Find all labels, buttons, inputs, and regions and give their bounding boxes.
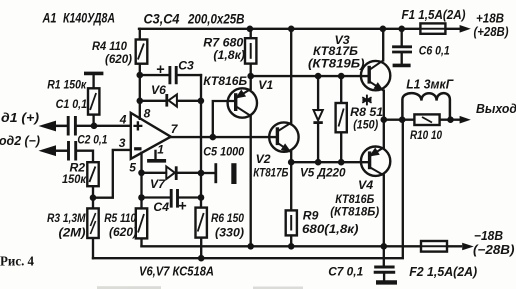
svg-text:С3: С3 xyxy=(178,59,194,73)
junction C4 right on output rail xyxy=(198,194,205,201)
svg-text:(−28В): (−28В) xyxy=(473,243,515,257)
wire drive line y162 V2 to V4 base xyxy=(291,161,369,163)
svg-text:(2М): (2М) xyxy=(59,226,86,240)
wire R9 leads xyxy=(290,162,292,246)
svg-text:5: 5 xyxy=(129,160,136,174)
wire R2 bottom to R3 top xyxy=(92,186,94,208)
wire bias line y76 R7 to V3 base xyxy=(251,75,370,77)
wire V6 branch xyxy=(140,100,201,102)
diode V6 (points left) xyxy=(167,94,177,107)
wire C7 lead top xyxy=(383,246,385,265)
svg-text:680(1,8к): 680(1,8к) xyxy=(302,222,359,236)
svg-text:С2 0,1: С2 0,1 xyxy=(77,132,107,146)
svg-text:V2: V2 xyxy=(256,152,271,166)
wire C4 branch xyxy=(142,196,202,198)
transistor V2 xyxy=(269,122,298,151)
resistor R6 xyxy=(196,208,207,238)
resistor R10 xyxy=(414,114,439,125)
svg-text:С1 0,1: С1 0,1 xyxy=(56,97,88,111)
svg-text:(150): (150) xyxy=(353,118,378,132)
svg-text:V4: V4 xyxy=(358,178,373,192)
wire R7 leads xyxy=(250,29,252,76)
junction V7 left on pin5 rail xyxy=(138,170,145,177)
op-amp A1 xyxy=(131,113,171,159)
svg-text:С7 0,1: С7 0,1 xyxy=(328,265,363,279)
svg-text:д1 (+): д1 (+) xyxy=(1,111,39,125)
resistor R7 xyxy=(245,38,256,63)
transistor V1 xyxy=(228,88,257,117)
junction L1 left on output wire xyxy=(399,116,406,123)
junction V3/V4 emitters output node xyxy=(381,116,388,123)
wire V1 base link xyxy=(213,101,236,137)
svg-text:(КТ818Б): (КТ818Б) xyxy=(330,205,379,219)
svg-text:R3 1,3М: R3 1,3М xyxy=(47,211,86,225)
junction R2/R3/pin3 node xyxy=(90,194,97,201)
svg-text:1: 1 xyxy=(157,142,164,156)
capacitor C4 xyxy=(171,189,177,208)
junction V6 branch on left rail xyxy=(137,98,144,105)
junction R9 bottom on -rail xyxy=(288,243,295,250)
svg-text:150к: 150к xyxy=(62,172,87,186)
junction V2 collector on +rail xyxy=(288,26,295,33)
fuse F2 xyxy=(421,241,447,252)
svg-text:Выход: Выход xyxy=(476,102,516,116)
svg-text:+18В: +18В xyxy=(476,12,504,26)
junction R6 bottom on feedback wire xyxy=(198,255,205,262)
svg-text:С6 0,1: С6 0,1 xyxy=(419,43,450,57)
svg-text:С5 1000: С5 1000 xyxy=(203,144,244,158)
svg-text:R6 150: R6 150 xyxy=(211,211,244,225)
wire R3 bottom corner to feedback xyxy=(92,238,94,258)
input2 arrow xyxy=(39,145,57,156)
junction C4 left on pin5 rail xyxy=(138,194,145,201)
junction V4 collector / C7 on -rail xyxy=(381,243,388,250)
-18V arrow xyxy=(462,243,474,251)
input1 arrow xyxy=(39,121,57,132)
wire left rail x140 (R4/C3/V6 to op-amp pin 8) xyxy=(139,29,141,119)
junction V6 branch on output rail xyxy=(198,98,205,105)
svg-text:200,0х25В: 200,0х25В xyxy=(187,12,244,28)
junction C6 on +rail xyxy=(398,26,405,33)
junction L1 right on output wire xyxy=(447,116,454,123)
junction V2 emitter / R9 top xyxy=(288,159,295,166)
svg-text:V6,V7 КС518А: V6,V7 КС518А xyxy=(139,265,214,279)
svg-text:V7: V7 xyxy=(150,177,166,191)
svg-text:R5 110: R5 110 xyxy=(104,211,136,225)
junction R8 bottom on drive line xyxy=(338,159,345,166)
junction V1 base link on output wire xyxy=(210,134,217,141)
svg-text:V5 Д220: V5 Д220 xyxy=(300,165,346,179)
wire pin1 stem xyxy=(154,151,156,159)
wire op-amp output rail x201 down to R6 xyxy=(200,75,202,208)
svg-text:С3,С4: С3,С4 xyxy=(144,12,180,28)
wire V2 emitter down xyxy=(290,152,292,162)
wire feedback line bottom xyxy=(93,120,403,259)
wire pin5 rail x141.5 xyxy=(140,153,142,209)
svg-text:V6: V6 xyxy=(151,83,166,97)
junction R7 top on +rail xyxy=(247,26,254,33)
svg-text:7: 7 xyxy=(171,122,179,136)
ground C7 xyxy=(376,280,397,284)
svg-text:К140УД8А: К140УД8А xyxy=(63,11,115,27)
svg-text:F1 1,5А(2А): F1 1,5А(2А) xyxy=(402,8,466,22)
wire V4 emitter up to output node xyxy=(383,120,385,148)
junction V5 bottom on drive line xyxy=(315,159,322,166)
wire V3 collector to rail xyxy=(382,29,384,61)
svg-text:+: + xyxy=(178,199,187,215)
wire V5 leads xyxy=(317,76,319,162)
wire top positive rail xyxy=(139,28,461,30)
svg-text:(КТ819Б): (КТ819Б) xyxy=(308,57,365,71)
svg-text:3: 3 xyxy=(119,136,126,150)
wire R8 leads xyxy=(340,76,342,162)
wire V1 emitter up / collector down xyxy=(250,76,252,246)
svg-text:8: 8 xyxy=(144,107,151,121)
wire output node to R10/arrow xyxy=(384,119,461,121)
junction V3 collector on +rail xyxy=(380,26,387,33)
svg-text:+: + xyxy=(156,62,165,78)
junction C3 branch on left rail xyxy=(137,72,144,79)
wire C5 branch xyxy=(201,172,214,174)
resistor R5 xyxy=(136,208,147,238)
svg-text:Рис. 4: Рис. 4 xyxy=(0,253,34,268)
junction R7 bottom / V1 emitter xyxy=(247,73,254,80)
wire R1 stem and leads xyxy=(92,75,94,126)
svg-text:(620): (620) xyxy=(109,225,137,239)
capacitor C2 xyxy=(69,141,76,161)
svg-text:V1: V1 xyxy=(258,78,273,92)
svg-text:R4 110: R4 110 xyxy=(92,39,127,53)
inductor L1 xyxy=(402,93,450,120)
svg-text:КТ817Б: КТ817Б xyxy=(253,166,289,180)
resistor R8 xyxy=(336,103,347,132)
svg-text:−18В: −18В xyxy=(474,229,503,243)
svg-text:F2 1,5А(2А): F2 1,5А(2А) xyxy=(409,265,477,279)
junction V7/C5 on output rail xyxy=(198,170,205,177)
wire C6 lead top xyxy=(401,29,403,46)
svg-text:L1 3мкГ: L1 3мкГ xyxy=(406,77,454,91)
svg-text:С4: С4 xyxy=(153,200,169,214)
ground pin1 xyxy=(147,159,166,163)
svg-text:R1 150к: R1 150к xyxy=(47,77,87,91)
wire V4 collector down to negative rail xyxy=(383,175,385,246)
fuse F1 xyxy=(420,23,445,33)
transistor V3 xyxy=(361,60,390,90)
wire C7 lead bottom xyxy=(383,274,385,280)
resistor R9 xyxy=(286,210,297,235)
svg-text:од2 (−): од2 (−) xyxy=(0,134,40,148)
svg-text:КТ816Б: КТ816Б xyxy=(203,74,247,88)
wire input1 to pin 4 xyxy=(50,125,131,127)
wire pin3 link from R2/R3 node xyxy=(93,150,131,198)
wire op-amp output pin7 to V2 base xyxy=(170,136,278,138)
ground above R1 xyxy=(84,72,103,76)
svg-text:(620): (620) xyxy=(105,52,132,66)
output arrow xyxy=(460,116,471,124)
capacitor C6 xyxy=(392,47,412,52)
ground C6 xyxy=(393,64,411,68)
wire V2 collector up to rail xyxy=(290,29,292,123)
junction R8 top on bias line xyxy=(338,73,345,80)
wire C6 lead bottom xyxy=(401,54,403,64)
svg-text:(1,8к): (1,8к) xyxy=(213,48,245,62)
diode V5 (points down) xyxy=(313,110,322,123)
wire V7 branch xyxy=(142,172,202,174)
diode V7 (points right) xyxy=(166,166,176,180)
svg-text:А1: А1 xyxy=(42,11,57,27)
arrows xyxy=(39,25,474,250)
wire V3 emitter down to output node xyxy=(383,91,385,120)
resistor R1 xyxy=(88,88,99,114)
capacitor C5 xyxy=(214,163,217,183)
resistor R3 xyxy=(87,208,98,238)
wire R5 bottom corner to negative rail xyxy=(140,238,142,246)
junction R1 bottom on pin4 wire xyxy=(91,123,98,130)
svg-text:R10 10: R10 10 xyxy=(410,128,442,142)
svg-text:4: 4 xyxy=(119,112,127,126)
capacitor C7 xyxy=(374,267,396,272)
transistor V4 xyxy=(361,147,390,176)
junction V1 collector on -rail xyxy=(247,243,254,250)
wire negative rail xyxy=(142,245,462,247)
svg-text:R9: R9 xyxy=(303,208,319,222)
svg-text:(+28В): (+28В) xyxy=(474,25,509,39)
+18V arrow xyxy=(460,25,471,33)
wire R6 bottom to feedback line xyxy=(200,238,202,259)
resistor R4 xyxy=(136,40,148,64)
resistor R2 xyxy=(87,162,98,186)
junction V5 top on bias line xyxy=(315,73,322,80)
capacitor C3 xyxy=(170,66,176,84)
wire input2 to R2 corner xyxy=(50,151,93,163)
label R8 star xyxy=(362,95,371,106)
capacitor C1 xyxy=(68,116,75,136)
wire C3 branch xyxy=(140,74,201,76)
svg-text:(330): (330) xyxy=(215,226,244,240)
